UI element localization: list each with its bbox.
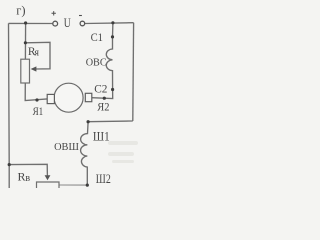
wire Rya wiper loop [25, 42, 50, 69]
arrowhead of Rya wiper [31, 66, 37, 71]
node dot Ya2 [103, 97, 106, 100]
resistor Rya body [21, 59, 30, 83]
wire right edge vertical [132, 23, 135, 121]
svg-text:C2: C2 [94, 84, 107, 96]
wire Rv wiper [9, 164, 47, 176]
svg-text:я: я [34, 48, 39, 59]
node dot Rya wiper [24, 41, 27, 44]
brush left [47, 94, 54, 103]
wire Rya branch vertical [24, 23, 26, 59]
wire top rail right (-) [85, 22, 134, 25]
wire left edge vertical [8, 23, 11, 188]
svg-text:Я1: Я1 [33, 106, 44, 118]
svg-text:г): г) [16, 4, 25, 18]
node dot Ya1 [35, 98, 38, 101]
resistor Rv body (cut at bottom) [37, 182, 60, 188]
terminal + circle [53, 21, 58, 26]
node dot Rv wiper junction [8, 163, 11, 166]
terminal - circle [80, 21, 85, 26]
node dot C1 [111, 35, 114, 38]
winding OVS (series) [106, 23, 113, 90]
svg-text:Ш2: Ш2 [96, 171, 111, 186]
node dot Sh1 [87, 120, 90, 123]
arrowhead of Rv wiper [45, 175, 51, 180]
node dot junction minus rail / C1 [111, 21, 114, 24]
wire node Sh1 horizontal [88, 120, 133, 123]
svg-text:Ш1: Ш1 [93, 129, 110, 144]
brush right [85, 93, 92, 101]
plus sign [52, 11, 56, 15]
wire Ya2 to C2 [92, 90, 113, 99]
minus sign [79, 15, 82, 17]
svg-text:C1: C1 [91, 30, 103, 44]
svg-text:в: в [25, 173, 30, 184]
node dot Sh2 [86, 184, 89, 187]
motor armature circle M [54, 83, 83, 112]
node dot junction plus rail / Rya [24, 21, 27, 24]
node dot C2 [111, 88, 114, 91]
svg-text:ОВС: ОВС [86, 57, 107, 69]
svg-text:ОВШ: ОВШ [54, 141, 79, 153]
svg-text:Я2: Я2 [97, 99, 109, 113]
wire Rya to Ya1 [25, 83, 47, 101]
svg-text:R: R [18, 169, 26, 183]
svg-text:U: U [64, 15, 71, 30]
winding OVSh (shunt) [81, 122, 89, 185]
wire top rail left (+) [9, 22, 53, 24]
wire Sh2 horizontal [60, 184, 88, 186]
